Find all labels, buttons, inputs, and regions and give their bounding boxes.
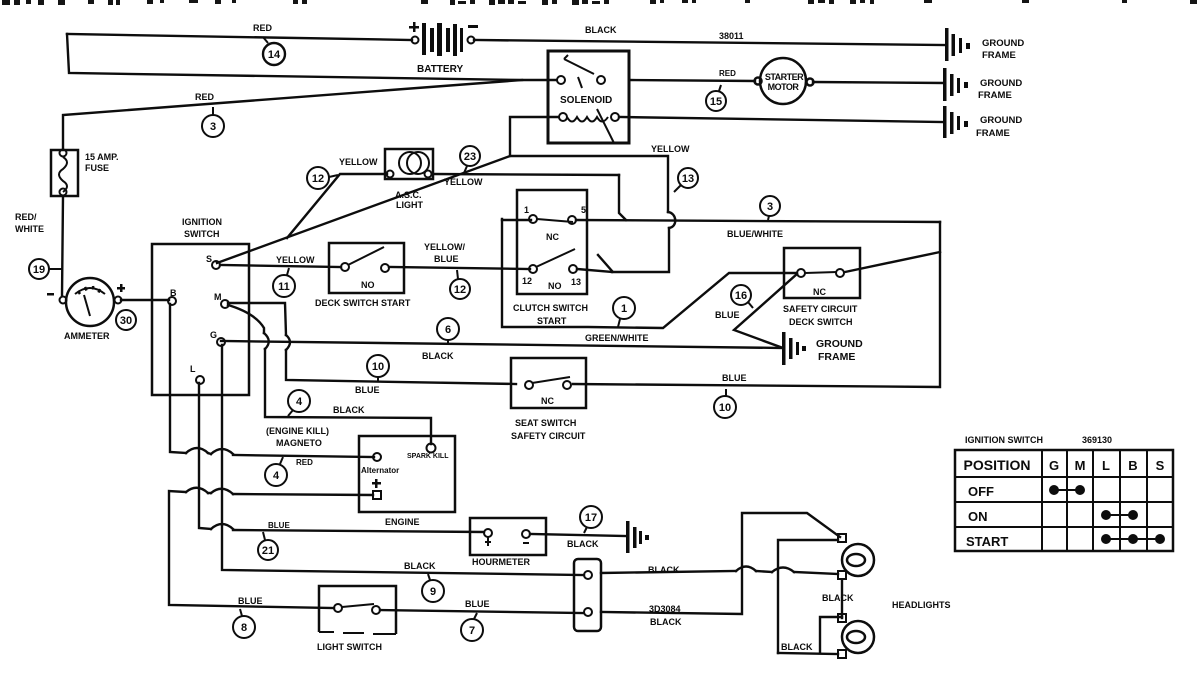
svg-text:17: 17: [585, 512, 597, 524]
svg-text:GROUND: GROUND: [980, 78, 1022, 89]
svg-text:S: S: [1156, 458, 1165, 473]
svg-text:A.S.C.: A.S.C.: [395, 190, 422, 200]
svg-text:1: 1: [621, 303, 627, 315]
svg-text:NC: NC: [541, 396, 554, 406]
svg-text:38011: 38011: [719, 31, 744, 41]
svg-text:BLUE: BLUE: [722, 373, 747, 383]
svg-text:L: L: [1102, 458, 1110, 473]
svg-text:BLACK: BLACK: [422, 351, 454, 361]
svg-text:ENGINE: ENGINE: [385, 517, 420, 527]
svg-text:15 AMP.: 15 AMP.: [85, 152, 119, 162]
svg-text:BLUE: BLUE: [355, 385, 380, 395]
svg-text:21: 21: [262, 545, 274, 557]
svg-text:POSITION: POSITION: [964, 457, 1031, 473]
svg-text:LIGHT: LIGHT: [396, 200, 423, 210]
svg-text:16: 16: [735, 290, 747, 302]
svg-text:SAFETY CIRCUIT: SAFETY CIRCUIT: [783, 304, 858, 314]
svg-text:13: 13: [682, 173, 694, 185]
svg-text:4: 4: [296, 396, 303, 408]
svg-text:BLUE: BLUE: [465, 599, 490, 609]
svg-text:SWITCH: SWITCH: [184, 229, 220, 239]
svg-text:23: 23: [464, 151, 476, 163]
svg-text:1: 1: [524, 205, 529, 215]
svg-text:SAFETY CIRCUIT: SAFETY CIRCUIT: [511, 431, 586, 441]
svg-text:12: 12: [454, 284, 466, 296]
svg-text:YELLOW: YELLOW: [276, 255, 315, 265]
svg-text:14: 14: [268, 49, 281, 61]
svg-text:CLUTCH SWITCH: CLUTCH SWITCH: [513, 303, 588, 313]
svg-text:19: 19: [33, 264, 45, 276]
svg-text:YELLOW: YELLOW: [339, 157, 378, 167]
svg-text:START: START: [966, 534, 1008, 549]
svg-text:BLUE: BLUE: [268, 521, 290, 530]
svg-text:RED: RED: [195, 92, 215, 102]
svg-text:FUSE: FUSE: [85, 163, 109, 173]
svg-text:12: 12: [312, 173, 324, 185]
svg-text:RED/: RED/: [15, 212, 37, 222]
svg-text:M: M: [1075, 458, 1086, 473]
svg-text:YELLOW: YELLOW: [651, 144, 690, 154]
svg-text:BLACK: BLACK: [404, 561, 436, 571]
svg-text:BLACK: BLACK: [585, 25, 617, 35]
svg-text:L: L: [190, 364, 196, 374]
svg-text:8: 8: [241, 622, 247, 634]
svg-text:NO: NO: [361, 280, 375, 290]
svg-text:FRAME: FRAME: [978, 90, 1012, 101]
svg-text:MAGNETO: MAGNETO: [276, 438, 322, 448]
svg-text:BLACK: BLACK: [822, 593, 854, 603]
svg-text:OFF: OFF: [968, 484, 994, 499]
svg-text:3: 3: [210, 121, 216, 133]
svg-text:10: 10: [719, 402, 731, 414]
svg-text:BLUE/WHITE: BLUE/WHITE: [727, 229, 783, 239]
svg-text:DECK SWITCH: DECK SWITCH: [789, 317, 853, 327]
svg-text:SOLENOID: SOLENOID: [560, 95, 612, 106]
svg-text:STARTER: STARTER: [765, 72, 804, 82]
svg-text:G: G: [1049, 458, 1059, 473]
svg-text:BATTERY: BATTERY: [417, 64, 463, 75]
svg-text:FRAME: FRAME: [976, 128, 1010, 139]
svg-text:G: G: [210, 330, 217, 340]
svg-text:3D3084: 3D3084: [649, 604, 681, 614]
svg-text:15: 15: [710, 96, 722, 108]
svg-text:SPARK KILL: SPARK KILL: [407, 453, 449, 460]
svg-text:RED: RED: [296, 458, 313, 467]
svg-text:10: 10: [372, 361, 384, 373]
svg-text:BLACK: BLACK: [650, 617, 682, 627]
svg-text:B: B: [170, 288, 177, 298]
svg-text:BLUE: BLUE: [434, 254, 459, 264]
svg-text:5: 5: [581, 205, 586, 215]
svg-text:ON: ON: [968, 509, 988, 524]
svg-text:BLACK: BLACK: [648, 565, 680, 575]
svg-text:MOTOR: MOTOR: [768, 82, 800, 92]
svg-text:YELLOW/: YELLOW/: [424, 242, 465, 252]
svg-text:GREEN/WHITE: GREEN/WHITE: [585, 333, 649, 343]
svg-text:369130: 369130: [1082, 435, 1112, 445]
svg-text:12: 12: [522, 276, 532, 286]
svg-text:HEADLIGHTS: HEADLIGHTS: [892, 600, 951, 610]
svg-text:M: M: [214, 292, 222, 302]
svg-text:(ENGINE KILL): (ENGINE KILL): [266, 426, 329, 436]
svg-text:BLACK: BLACK: [781, 642, 813, 652]
svg-text:START: START: [537, 316, 567, 326]
svg-text:IGNITION: IGNITION: [182, 217, 222, 227]
svg-text:IGNITION SWITCH: IGNITION SWITCH: [965, 435, 1043, 445]
svg-text:13: 13: [571, 277, 581, 287]
svg-text:BLACK: BLACK: [333, 405, 365, 415]
svg-text:4: 4: [273, 470, 280, 482]
svg-text:NC: NC: [813, 287, 826, 297]
svg-text:SEAT SWITCH: SEAT SWITCH: [515, 418, 576, 428]
svg-text:RED: RED: [253, 23, 273, 33]
svg-text:B: B: [1128, 458, 1137, 473]
svg-text:RED: RED: [719, 69, 736, 78]
svg-text:HOURMETER: HOURMETER: [472, 557, 530, 567]
svg-text:BLACK: BLACK: [567, 539, 599, 549]
svg-text:BLUE: BLUE: [238, 596, 263, 606]
svg-text:DECK SWITCH START: DECK SWITCH START: [315, 298, 411, 308]
svg-text:NC: NC: [546, 232, 559, 242]
svg-text:GROUND: GROUND: [982, 38, 1024, 49]
svg-text:7: 7: [469, 625, 475, 637]
svg-text:YELLOW: YELLOW: [444, 177, 483, 187]
svg-text:AMMETER: AMMETER: [64, 331, 110, 341]
svg-text:FRAME: FRAME: [982, 50, 1016, 61]
svg-text:Alternator: Alternator: [361, 466, 399, 475]
svg-text:6: 6: [445, 324, 451, 336]
svg-text:3: 3: [767, 201, 773, 213]
svg-text:S: S: [206, 254, 212, 264]
svg-text:BLUE: BLUE: [715, 310, 740, 320]
svg-text:30: 30: [120, 315, 132, 327]
svg-text:FRAME: FRAME: [818, 351, 855, 363]
svg-text:9: 9: [430, 586, 436, 598]
svg-text:NO: NO: [548, 281, 562, 291]
svg-text:GROUND: GROUND: [980, 115, 1022, 126]
svg-text:GROUND: GROUND: [816, 338, 863, 350]
svg-text:WHITE: WHITE: [15, 224, 44, 234]
svg-text:11: 11: [278, 281, 290, 293]
svg-text:LIGHT SWITCH: LIGHT SWITCH: [317, 642, 382, 652]
